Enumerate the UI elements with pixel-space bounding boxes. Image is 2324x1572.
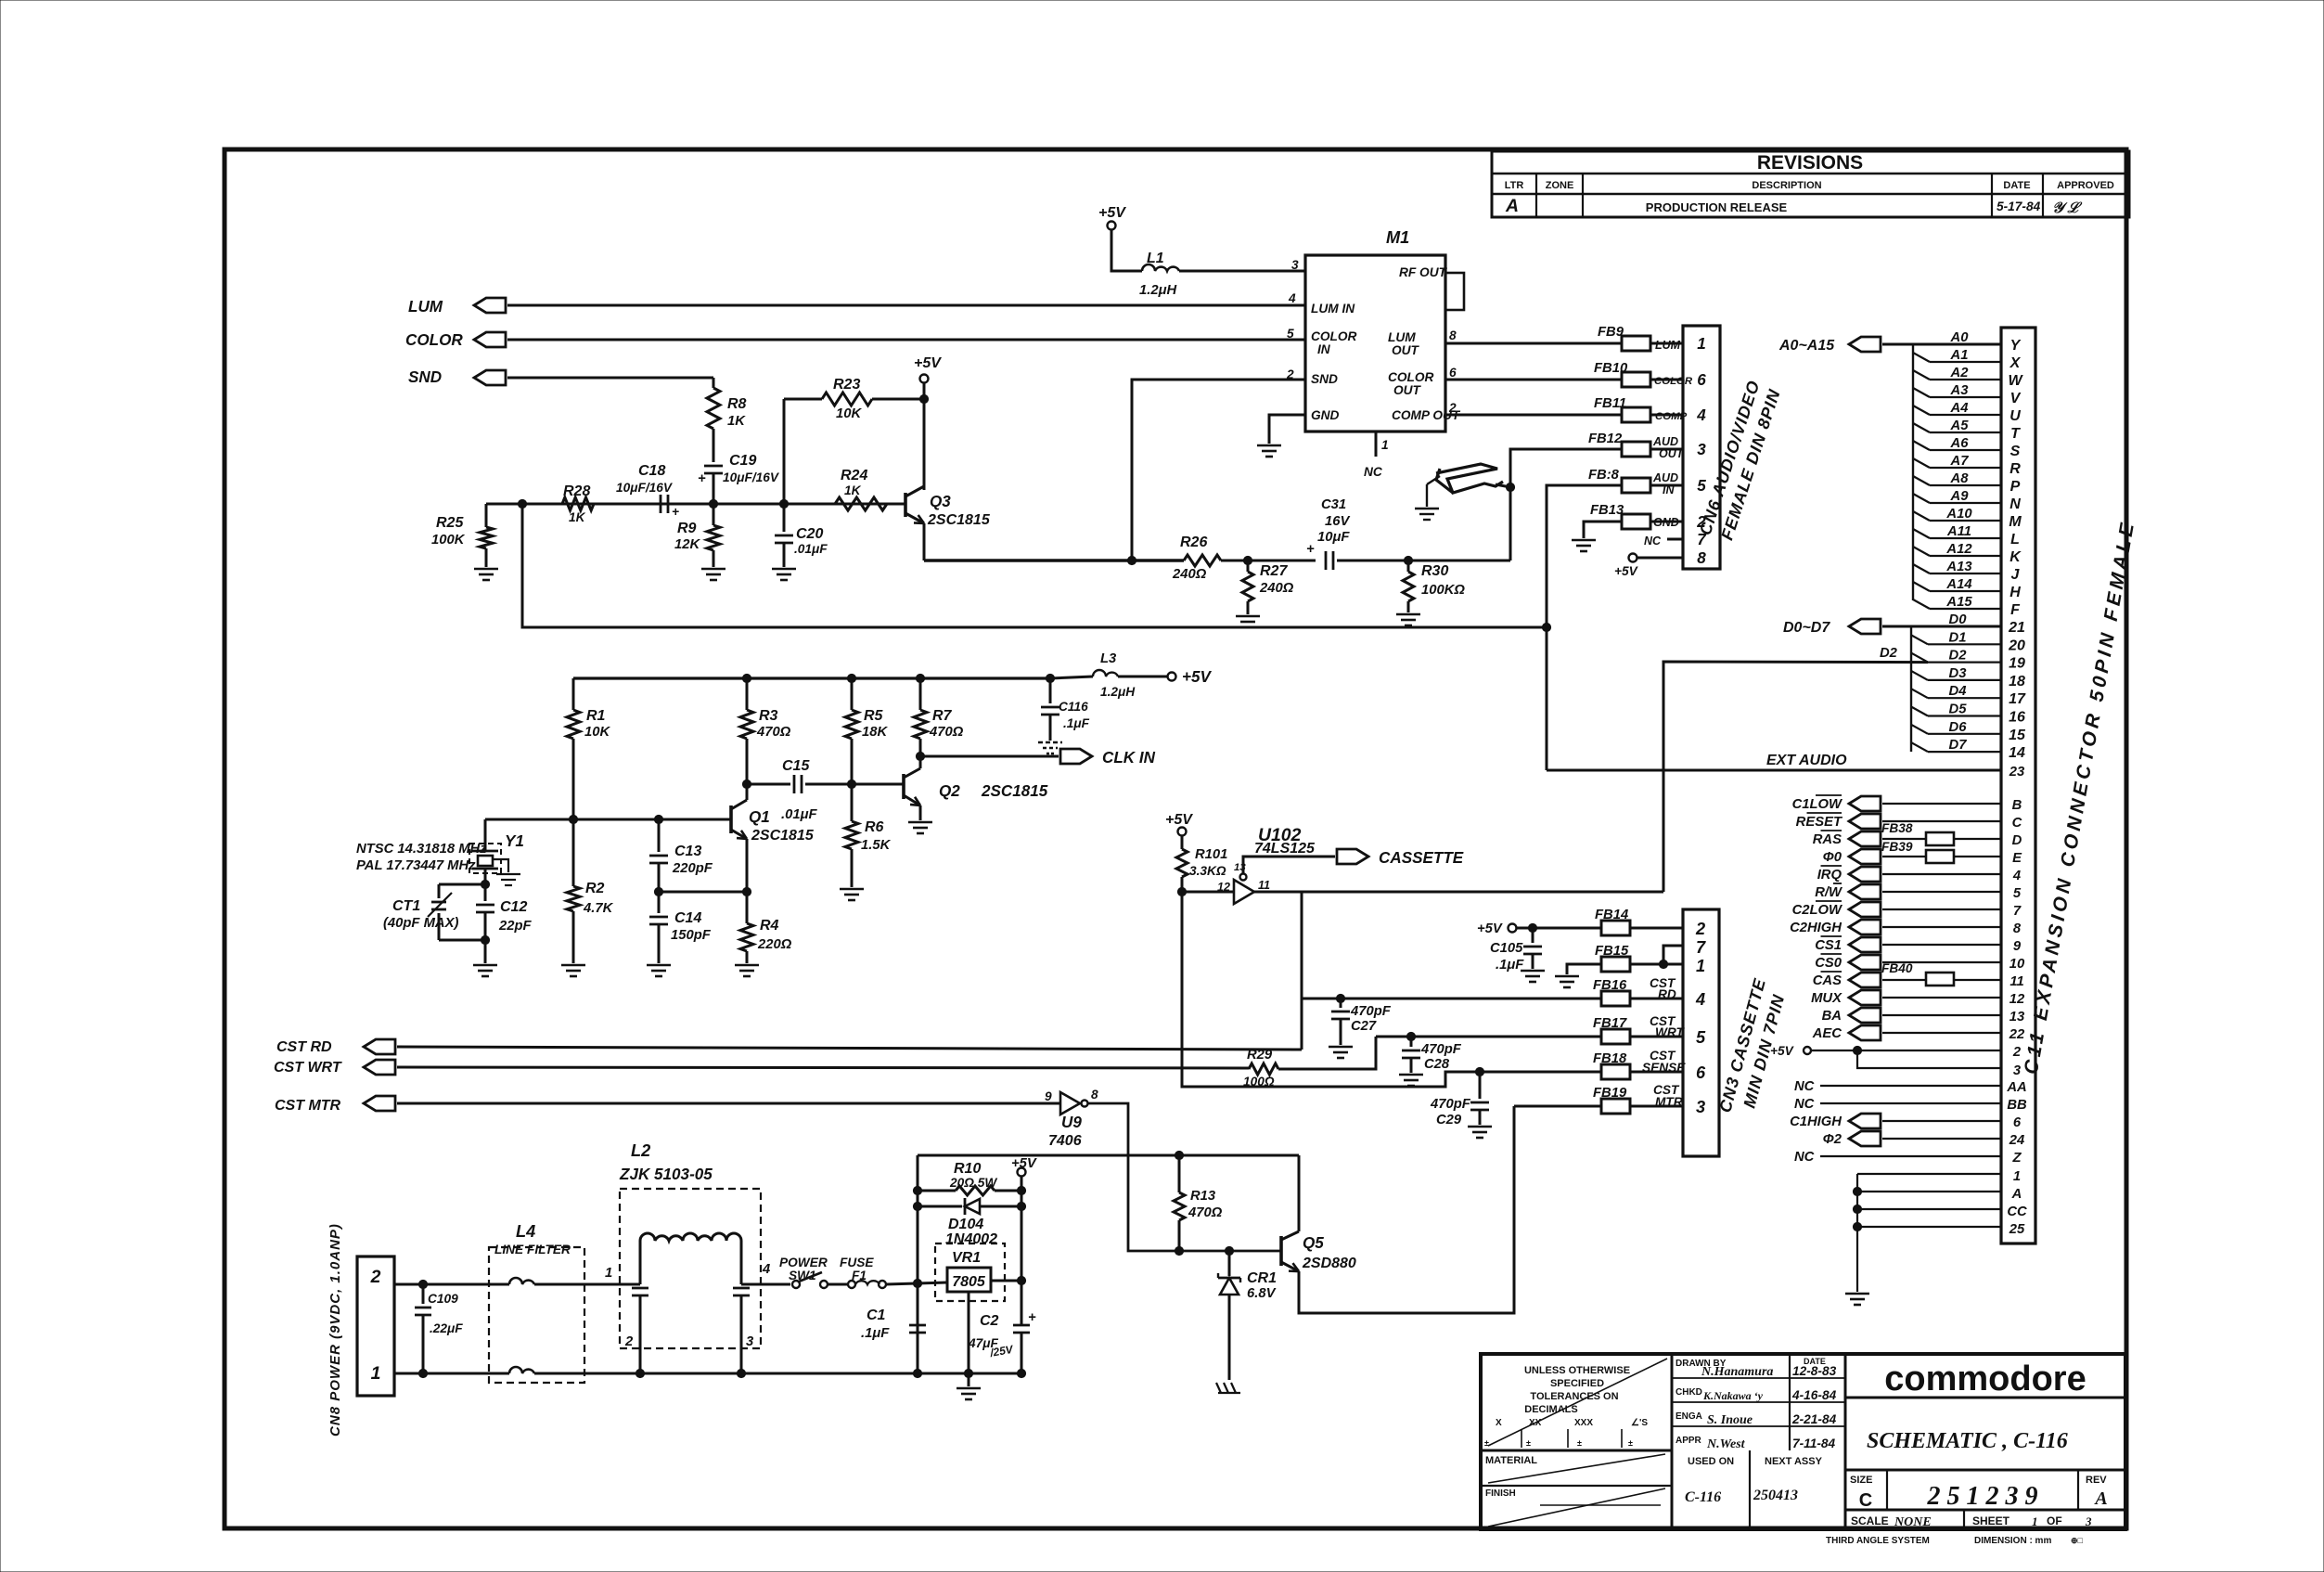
svg-text:D2: D2	[1880, 646, 1898, 661]
svg-text:L3: L3	[1100, 651, 1117, 666]
svg-text:R25: R25	[436, 515, 464, 531]
svg-text:10K: 10K	[584, 725, 610, 740]
svg-text:1: 1	[1381, 438, 1389, 452]
svg-text:10μF/16V: 10μF/16V	[723, 470, 780, 484]
ground C27	[1329, 1046, 1353, 1049]
resistor R4 220ohm	[746, 892, 749, 923]
size row	[1845, 1509, 2125, 1512]
connector CN8 power	[357, 1256, 394, 1396]
svg-text:VR1: VR1	[952, 1250, 981, 1266]
svg-text:R7: R7	[932, 708, 953, 724]
svg-text:+: +	[1306, 542, 1315, 557]
svg-text:T: T	[2010, 426, 2021, 442]
svg-text:FB19: FB19	[1593, 1086, 1627, 1101]
svg-text:LTR: LTR	[1505, 180, 1524, 191]
svg-text:5-17-84: 5-17-84	[1997, 200, 2041, 213]
M1 pin1 NC stub	[1375, 432, 1378, 457]
svg-text:1.2μH: 1.2μH	[1100, 685, 1136, 699]
svg-text:+5V: +5V	[1098, 205, 1126, 221]
svg-text:13: 13	[2009, 1010, 2025, 1024]
svg-text:FB12: FB12	[1588, 432, 1623, 446]
resistor R13 470ohm	[1175, 1151, 1183, 1159]
svg-text:PAL 17.73447 MHz: PAL 17.73447 MHz	[356, 858, 476, 873]
wire EXT AUDIO	[1547, 769, 2001, 772]
svg-text:2SC1815: 2SC1815	[927, 512, 991, 528]
wire A9	[1913, 494, 1930, 503]
wire FB:8 to CN6 pin5	[1650, 484, 1683, 487]
svg-text:C2LOW: C2LOW	[1792, 903, 1843, 918]
svg-text:A8: A8	[1950, 471, 1970, 486]
svg-text:7805: 7805	[952, 1274, 986, 1290]
wire CST RD to FB16	[1341, 998, 1601, 1000]
wire U102 pin11 to D2 riser	[1254, 891, 1663, 894]
resistor R1 10K	[572, 678, 575, 710]
wire COLOR to M1 pin5	[507, 339, 1305, 341]
wire FB11 to CN6 pin4	[1650, 414, 1683, 417]
svg-text:ZONE: ZONE	[1546, 180, 1574, 191]
svg-text:C28: C28	[1424, 1057, 1450, 1072]
svg-text:3: 3	[1697, 441, 1706, 458]
wire +5V to L1	[1111, 230, 1142, 271]
capacitor C15 .01uF	[747, 783, 790, 786]
capacitor C29 470pF	[1475, 1067, 1483, 1076]
svg-text:IN: IN	[1317, 342, 1331, 356]
resistor R28 1K	[562, 497, 594, 510]
wire A2	[1913, 370, 1930, 380]
svg-text:1.2μH: 1.2μH	[1139, 283, 1176, 298]
capacitor C20 .01uF	[779, 499, 788, 508]
svg-text:X: X	[2009, 355, 2022, 371]
ferrite bead FB16	[1601, 991, 1630, 1006]
svg-text:4: 4	[1695, 990, 1705, 1009]
svg-text:SND: SND	[408, 368, 442, 386]
svg-text:FUSE: FUSE	[840, 1256, 874, 1269]
svg-text:R2: R2	[585, 881, 605, 896]
svg-text:Y1: Y1	[505, 832, 524, 850]
wire fuse to regulator	[886, 1282, 947, 1284]
wire CLK out	[920, 755, 1059, 758]
revisions table	[1492, 151, 2129, 217]
commodore logo	[1845, 1397, 2125, 1399]
ferrite bead FB19	[1601, 1099, 1630, 1114]
resistor R101 3.3Kohm	[1181, 836, 1184, 849]
svg-text:CST WRT: CST WRT	[274, 1060, 342, 1076]
wire A5	[1913, 423, 1930, 432]
svg-text:470Ω: 470Ω	[756, 725, 791, 740]
svg-text:B: B	[2012, 798, 2022, 813]
speaker (sketch)	[1436, 464, 1503, 493]
svg-text:F: F	[2010, 602, 2021, 618]
resistor R5 18K	[847, 674, 855, 682]
wire FB10 to CN6 pin6	[1650, 379, 1683, 381]
wire pin12	[1182, 891, 1234, 894]
svg-text:4-16-84: 4-16-84	[1791, 1388, 1837, 1402]
feedback wire to R28 node	[522, 504, 1547, 627]
svg-text:GND: GND	[1311, 408, 1340, 422]
svg-text:10: 10	[2009, 957, 2025, 972]
svg-text:FB10: FB10	[1594, 361, 1628, 376]
svg-text:COLOR: COLOR	[405, 331, 463, 349]
svg-text:A0~A15: A0~A15	[1778, 338, 1835, 354]
svg-text:Q1: Q1	[749, 808, 770, 826]
wire A4	[1913, 406, 1930, 415]
svg-text:1K: 1K	[727, 414, 746, 429]
diode D104 1N4002	[913, 1202, 921, 1210]
svg-text:C: C	[2012, 816, 2022, 831]
node CLK IN output arrow	[1060, 749, 1092, 764]
svg-text:74LS125: 74LS125	[1254, 841, 1316, 857]
svg-text:+5V: +5V	[1614, 564, 1639, 578]
svg-text:XXX: XXX	[1574, 1418, 1593, 1428]
svg-text:8: 8	[1091, 1088, 1098, 1102]
svg-text:220Ω: 220Ω	[757, 937, 792, 952]
svg-text:R: R	[2009, 461, 2021, 477]
svg-text:FB38: FB38	[1881, 821, 1913, 835]
svg-text:18K: 18K	[862, 725, 888, 740]
svg-text:L4: L4	[516, 1222, 535, 1241]
ground C12	[473, 964, 497, 967]
svg-text:A4: A4	[1950, 401, 1969, 416]
svg-text:LUM: LUM	[1655, 339, 1681, 352]
svg-text:IRQ: IRQ	[1817, 868, 1843, 883]
resistor R8 1K	[707, 388, 720, 429]
wire D6	[1911, 725, 1928, 734]
svg-text:S: S	[2010, 444, 2021, 459]
svg-text:1: 1	[1696, 957, 1705, 975]
svg-text:6: 6	[2013, 1115, 2022, 1130]
ground for FB13	[1584, 522, 1622, 538]
ferrite bead FB39	[1926, 850, 1954, 863]
svg-text:R24: R24	[841, 468, 867, 483]
svg-text:2SC1815: 2SC1815	[751, 828, 815, 844]
ground C105	[1521, 970, 1545, 973]
svg-text:Φ0: Φ0	[1823, 850, 1843, 865]
svg-text:K.Nakawa ʻy: K.Nakawa ʻy	[1702, 1389, 1764, 1402]
svg-text:CST MTR: CST MTR	[275, 1098, 341, 1114]
wire pin2 line	[394, 1283, 509, 1286]
wire M1 SND pin2	[1132, 380, 1305, 561]
svg-text:6.8V: 6.8V	[1247, 1286, 1277, 1301]
CN3 rotated label	[1715, 976, 1791, 1120]
svg-text:A9: A9	[1950, 489, 1970, 504]
wire D2	[1911, 653, 1928, 663]
svg-text:A15: A15	[1945, 595, 1972, 610]
ground VR1	[957, 1387, 981, 1390]
Y1 case ground	[493, 859, 508, 872]
ground C28	[1399, 1074, 1423, 1076]
svg-text:+: +	[672, 505, 679, 519]
+5V rail (oscillator)	[573, 676, 1050, 679]
svg-text:±: ±	[1628, 1438, 1633, 1448]
ground C14	[647, 964, 671, 967]
svg-text:MUX: MUX	[1811, 991, 1843, 1006]
wire D4	[1911, 689, 1928, 698]
ground R27	[1236, 615, 1260, 618]
svg-text:H: H	[2009, 585, 2021, 600]
wire CST MTR to U9	[397, 1102, 1060, 1105]
Q1 base line	[485, 818, 731, 821]
svg-text:.1μF: .1μF	[861, 1326, 890, 1341]
svg-text:16: 16	[2009, 710, 2025, 726]
svg-text:6: 6	[1449, 366, 1457, 380]
ground R25	[474, 568, 498, 571]
svg-text:commodore: commodore	[1884, 1359, 2086, 1398]
svg-text:±: ±	[1484, 1438, 1489, 1448]
svg-text:6: 6	[1697, 371, 1706, 389]
svg-text:7406: 7406	[1048, 1133, 1082, 1149]
svg-text:A14: A14	[1945, 577, 1971, 592]
wire pin13 to CASSETTE	[1243, 857, 1335, 873]
svg-text:25: 25	[2009, 1222, 2025, 1237]
svg-text:7-11-84: 7-11-84	[1792, 1437, 1836, 1450]
svg-text:(40pF MAX): (40pF MAX)	[383, 916, 458, 931]
svg-text:LINE FILTER: LINE FILTER	[494, 1243, 571, 1256]
svg-text:FB9: FB9	[1598, 325, 1624, 340]
wire FB19 to Q5 collector riser	[1514, 1105, 1601, 1108]
svg-text:3.3KΩ: 3.3KΩ	[1189, 864, 1226, 878]
drawn by column	[1789, 1354, 1791, 1450]
svg-text:Q5: Q5	[1303, 1234, 1324, 1252]
svg-text:R26: R26	[1180, 535, 1207, 550]
svg-text:+5V: +5V	[1770, 1044, 1795, 1058]
svg-text:.01μF: .01μF	[781, 807, 817, 822]
+5V line to R13/Q5	[918, 1154, 1299, 1157]
svg-text:100K: 100K	[431, 533, 466, 548]
svg-text:S. Inoue: S. Inoue	[1707, 1413, 1753, 1427]
svg-text:DIMENSION : mm: DIMENSION : mm	[1974, 1536, 2051, 1546]
svg-text:+5V: +5V	[1011, 1156, 1037, 1171]
inverter U9 7406	[1060, 1092, 1080, 1115]
svg-text:NONE: NONE	[1894, 1515, 1932, 1529]
svg-text:COLOR: COLOR	[1654, 376, 1693, 387]
svg-text:FB17: FB17	[1593, 1016, 1627, 1031]
svg-text:ZJK 5103-05: ZJK 5103-05	[619, 1166, 713, 1183]
svg-text:MATERIAL: MATERIAL	[1485, 1455, 1537, 1466]
FB15 left ground	[1567, 964, 1601, 974]
CN1 rotated label	[2021, 518, 2139, 1076]
svg-text:±: ±	[1577, 1438, 1582, 1448]
svg-text:RAS: RAS	[1813, 832, 1842, 847]
svg-text:4.7K: 4.7K	[583, 901, 614, 916]
wire A11	[1913, 529, 1930, 538]
svg-text:1: 1	[2032, 1514, 2038, 1528]
svg-text:UNLESS OTHERWISE: UNLESS OTHERWISE	[1524, 1365, 1630, 1376]
svg-text:RESET: RESET	[1796, 815, 1843, 830]
svg-text:C2: C2	[980, 1313, 999, 1329]
RF modulator M1	[1305, 255, 1445, 432]
svg-text:CR1: CR1	[1247, 1270, 1277, 1286]
L2 coil	[640, 1233, 741, 1241]
transistor Q2 2SC1815	[919, 756, 922, 768]
svg-text:D1: D1	[1949, 630, 1967, 645]
svg-text:2: 2	[1695, 920, 1705, 938]
RF connector box	[1445, 273, 1464, 310]
L2 right cap leg	[740, 1241, 743, 1284]
svg-text:RF OUT: RF OUT	[1399, 265, 1448, 279]
svg-text:OUT: OUT	[1393, 383, 1422, 397]
svg-text:24: 24	[2009, 1133, 2024, 1148]
svg-text:470pF: 470pF	[1420, 1042, 1462, 1057]
svg-text:2 5 1 2 3 9: 2 5 1 2 3 9	[1927, 1482, 2038, 1511]
svg-text:C-116: C-116	[1685, 1489, 1721, 1505]
capacitor C27 470pF	[1302, 998, 1341, 1000]
svg-text:A6: A6	[1950, 436, 1970, 451]
svg-text:12: 12	[2009, 992, 2025, 1007]
L4 bottom coil	[394, 1372, 509, 1375]
svg-text:M: M	[2009, 514, 2022, 530]
svg-text:CN8 POWER (9VDC, 1.0ANP): CN8 POWER (9VDC, 1.0ANP)	[327, 1223, 343, 1437]
node feedback junction	[518, 499, 526, 508]
svg-text:APPR: APPR	[1676, 1436, 1702, 1446]
ferrite bead FB38	[1926, 832, 1954, 845]
svg-text:∠'S: ∠'S	[1631, 1418, 1648, 1428]
svg-text:5: 5	[1697, 477, 1706, 495]
svg-text:Q2: Q2	[939, 782, 960, 800]
svg-text:LUM: LUM	[408, 298, 443, 316]
svg-text:100KΩ: 100KΩ	[1421, 583, 1465, 598]
wire A6	[1913, 441, 1930, 450]
resistor R9 12K	[713, 504, 715, 525]
svg-text:R28: R28	[563, 483, 590, 499]
svg-text:USED ON: USED ON	[1688, 1456, 1734, 1467]
wire L1 to M1 pin3	[1179, 270, 1305, 273]
capacitor C12 22pF	[484, 884, 487, 901]
svg-text:2-21-84: 2-21-84	[1791, 1412, 1837, 1426]
svg-text:C19: C19	[729, 453, 756, 469]
svg-text:A: A	[2011, 1187, 2022, 1202]
svg-text:COLOR: COLOR	[1388, 370, 1434, 384]
svg-text:D104: D104	[948, 1217, 983, 1232]
svg-text:XX: XX	[1529, 1418, 1542, 1428]
svg-text:EXT AUDIO: EXT AUDIO	[1766, 753, 1847, 768]
sheet border frame	[225, 149, 2126, 1528]
svg-text:470pF: 470pF	[1430, 1097, 1471, 1112]
svg-text:OUT: OUT	[1392, 343, 1420, 357]
ground R4	[735, 964, 759, 967]
resistor R23 10K	[783, 399, 786, 504]
svg-text:R9: R9	[677, 521, 697, 536]
wire CST RD	[397, 1047, 1302, 1050]
svg-text:8: 8	[1697, 549, 1706, 567]
CN6 rotated label	[1696, 378, 1785, 544]
capacitor C109 .22uF	[422, 1284, 425, 1304]
wire A10	[1913, 511, 1930, 521]
svg-text:+5V: +5V	[914, 355, 942, 371]
svg-text:10K: 10K	[836, 406, 862, 421]
ferrite bead FB15	[1601, 957, 1630, 972]
wire CST WRT + resistor R29 100ohm	[397, 1067, 1249, 1068]
svg-text:.01μF: .01μF	[794, 542, 828, 556]
svg-text:C12: C12	[500, 899, 527, 915]
svg-text:C27: C27	[1351, 1019, 1377, 1034]
svg-text:1.5K: 1.5K	[861, 838, 892, 853]
svg-text:2: 2	[370, 1267, 381, 1287]
ground rows 1,A,CC,25	[1856, 1174, 1858, 1292]
svg-text:5: 5	[1696, 1028, 1706, 1047]
svg-text:A: A	[2093, 1488, 2107, 1509]
svg-text:R27: R27	[1260, 563, 1288, 579]
wire LUM to M1 pin4	[507, 304, 1305, 307]
svg-text:240Ω: 240Ω	[1259, 581, 1294, 596]
svg-text:SND: SND	[1311, 372, 1338, 386]
ground C29	[1468, 1126, 1492, 1128]
svg-text:Q3: Q3	[930, 493, 951, 510]
svg-text:250413: 250413	[1753, 1488, 1798, 1503]
svg-text:CASSETTE: CASSETTE	[1379, 849, 1464, 867]
svg-text:FB15: FB15	[1595, 944, 1629, 959]
svg-text:3: 3	[2085, 1514, 2092, 1528]
svg-text:3: 3	[1696, 1098, 1705, 1116]
svg-text:1: 1	[371, 1363, 381, 1384]
svg-text:J: J	[2011, 567, 2021, 583]
svg-text:REV: REV	[2086, 1475, 2107, 1486]
transistor Q3 2SC1815	[923, 399, 926, 490]
svg-text:470pF: 470pF	[1350, 1004, 1392, 1019]
svg-text:FB40: FB40	[1881, 961, 1913, 975]
svg-text:FB:8: FB:8	[1588, 468, 1620, 483]
svg-text:NC: NC	[1644, 535, 1662, 548]
used on / next assy	[1749, 1450, 1751, 1529]
svg-text:COLOR: COLOR	[1311, 329, 1357, 343]
svg-text:U9: U9	[1061, 1114, 1082, 1131]
svg-text:CLK IN: CLK IN	[1102, 749, 1156, 767]
svg-text:C1: C1	[867, 1308, 886, 1323]
wire C13-R4	[659, 891, 747, 894]
+5V terminal CN6 pin8	[1629, 554, 1637, 562]
svg-text:±: ±	[1526, 1438, 1531, 1448]
svg-text:D7: D7	[1949, 738, 1968, 753]
svg-text:L: L	[2010, 532, 2020, 548]
svg-text:C14: C14	[674, 910, 701, 926]
svg-text:10μF/16V: 10μF/16V	[616, 481, 674, 495]
wire FB13 to CN6 pin2	[1650, 521, 1683, 523]
regulator VR1 7805	[935, 1243, 1005, 1301]
wire D3	[1911, 671, 1928, 680]
svg-text:C1HIGH: C1HIGH	[1790, 1115, 1842, 1129]
svg-text:1K: 1K	[844, 483, 862, 497]
chassis ground CR1	[1216, 1383, 1240, 1393]
ferrite bead FB40	[1926, 973, 1954, 986]
svg-text:11: 11	[2009, 974, 2023, 989]
svg-text:19: 19	[2009, 656, 2025, 672]
svg-text:23: 23	[2009, 765, 2025, 780]
svg-text:4: 4	[2012, 869, 2021, 883]
capacitor C18 10uF/16V	[660, 495, 662, 513]
svg-text:8: 8	[2013, 921, 2022, 936]
svg-text:OF: OF	[2047, 1514, 2062, 1527]
svg-text:AA: AA	[2006, 1080, 2026, 1095]
svg-text:A0: A0	[1950, 330, 1970, 345]
svg-text:NC: NC	[1794, 1079, 1815, 1094]
connector CN6 audio/video	[1683, 326, 1720, 569]
svg-text:X: X	[1496, 1418, 1502, 1428]
main bias line	[486, 503, 905, 506]
svg-text:C116: C116	[1059, 700, 1088, 714]
svg-text:THIRD ANGLE SYSTEM: THIRD ANGLE SYSTEM	[1826, 1536, 1930, 1546]
svg-text:A11: A11	[1946, 524, 1971, 539]
ground R2	[561, 964, 585, 967]
M1 GND wire + ground	[1269, 415, 1305, 444]
svg-text:D0: D0	[1949, 612, 1968, 627]
schematic title	[1845, 1469, 2125, 1472]
svg-text:5: 5	[1287, 327, 1294, 341]
resistor R25 100K	[485, 504, 488, 527]
resistor R24 1K	[835, 497, 887, 510]
connector CN3 cassette	[1683, 909, 1719, 1156]
svg-text:R1: R1	[586, 708, 606, 724]
svg-text:V: V	[2010, 391, 2022, 406]
ferrite bead FB13	[1622, 514, 1650, 529]
